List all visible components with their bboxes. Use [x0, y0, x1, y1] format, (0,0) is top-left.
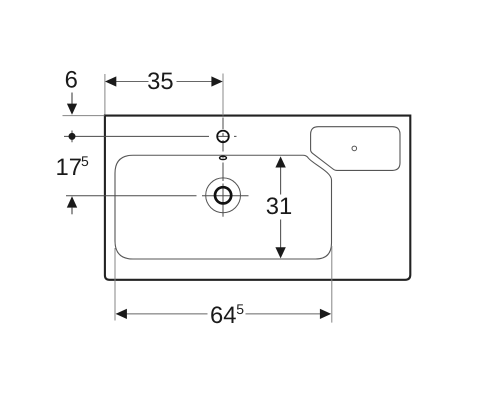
dim 31: up arrow: [275, 156, 285, 167]
drain inner circle: [215, 187, 231, 203]
dim 6/17.5: reference dot on tap axis: [69, 131, 76, 143]
drain centerline horizontal: [66, 195, 249, 197]
drain centerline vertical: [222, 172, 224, 217]
tap hole centerline horizontal: [64, 135, 237, 137]
svg-text:31: 31: [266, 193, 292, 220]
svg-text:17: 17: [56, 154, 82, 181]
dim 64.5: extension line left: [114, 248, 116, 321]
dim 35: extension line left (from outer corner): [104, 74, 106, 115]
dim 35: right arrow: [211, 76, 222, 86]
dim 35: extension line right (tap axis): [222, 74, 224, 116]
svg-text:35: 35: [147, 68, 173, 95]
dim 64.5: left arrow: [116, 309, 127, 319]
washbasin outer outline: [105, 116, 410, 280]
svg-text:64: 64: [210, 302, 236, 329]
shelf small hole: [352, 146, 357, 151]
dim 64.5: label: [210, 301, 244, 329]
svg-text:5: 5: [81, 153, 89, 169]
overflow slot: [220, 156, 227, 159]
svg-text:5: 5: [236, 301, 244, 317]
inner basin outline: [115, 155, 332, 259]
dim 64.5: right arrow: [320, 309, 331, 319]
svg-text:6: 6: [65, 67, 78, 94]
dim 35: dimension line: [106, 81, 222, 83]
dim 17.5: label: [56, 153, 90, 181]
dim 35: label: [147, 68, 173, 95]
dim 31: dimension line: [280, 167, 282, 249]
shelf (tap deck) outline: [311, 127, 400, 171]
dim 17.5: up arrow to drain axis: [67, 196, 77, 214]
dim 6: label: [65, 67, 78, 94]
tap hole centerline vertical (chain): [222, 118, 224, 217]
dim 6: extension line of top edge: [63, 115, 105, 117]
dim 35: left arrow: [105, 76, 116, 86]
tap hole: [217, 131, 229, 143]
dim 64.5: dimension line: [117, 313, 331, 315]
drain outer circle: [206, 178, 241, 213]
dim 64.5: extension line right: [331, 246, 333, 323]
dim 31: down arrow: [275, 247, 285, 258]
dim 6: down arrow: [67, 93, 77, 115]
dim 31: label: [266, 193, 292, 220]
